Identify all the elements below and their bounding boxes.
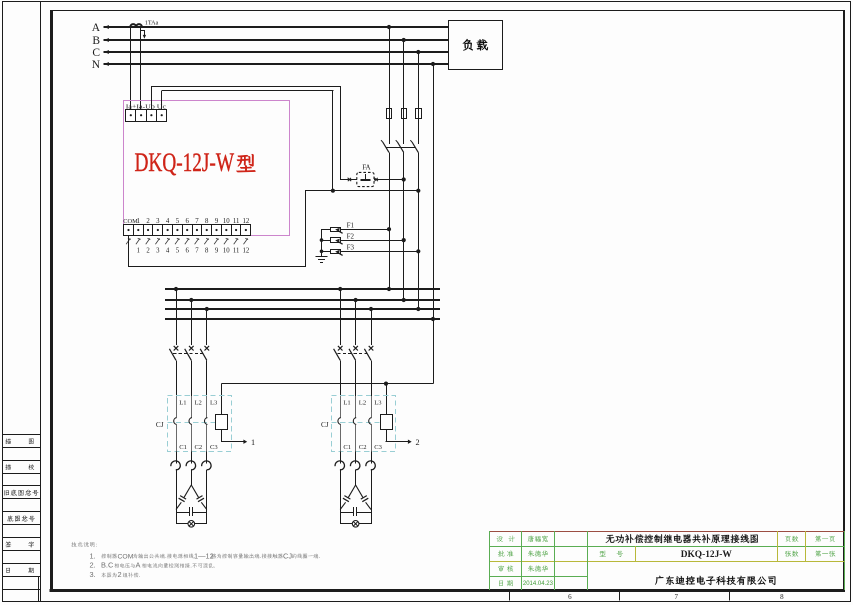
wire FU3 to breaker — [418, 119, 420, 145]
svg-text:8: 8 — [205, 218, 209, 225]
frame sidebar column — [40, 2, 42, 602]
svg-text:1: 1 — [137, 218, 140, 225]
title block label 日期 — [499, 580, 513, 586]
wire coil2 to controller output — [386, 429, 388, 441]
node branch2 pole2 bus tap — [354, 298, 358, 302]
svg-text:CJ: CJ — [156, 421, 164, 429]
notes header 技术说明 — [71, 542, 97, 547]
wire phase B below breaker — [403, 152, 405, 299]
svg-text:2: 2 — [416, 438, 420, 447]
node branch2 pole3 bus tap — [369, 307, 373, 311]
breaker QF2 dashed linkage — [337, 353, 369, 355]
breaker QF1 blades — [169, 349, 176, 361]
border inner frame right — [843, 10, 845, 592]
frame sidebar label 描图 — [5, 438, 11, 444]
node phase N tap — [431, 62, 435, 66]
title block label 页数 — [785, 536, 798, 542]
wire CT secondary Ia- — [140, 27, 142, 109]
svg-text:CJ: CJ — [321, 421, 329, 429]
bus bar L2 — [165, 299, 440, 301]
surge arrester F3 body — [331, 250, 341, 254]
frame sidebar label 签字 — [5, 541, 11, 547]
circuit breaker QF pole C blade — [412, 142, 418, 152]
wire phase C drop — [418, 52, 420, 109]
bus bar L1 — [165, 288, 440, 290]
svg-text:1TAa: 1TAa — [145, 20, 159, 27]
svg-text:3: 3 — [156, 218, 160, 225]
svg-text:1.: 1. — [90, 551, 96, 560]
fuse FU3 — [418, 109, 420, 119]
contactor CJ1 coil — [216, 415, 228, 430]
svg-text:9: 9 — [215, 218, 219, 225]
branch 2 poles to contactor — [340, 360, 342, 396]
node N through bus4 — [431, 317, 435, 321]
fuse FA connector mark left — [348, 178, 352, 182]
breaker QF2 blades — [334, 349, 341, 361]
wire phase line N — [104, 63, 449, 65]
branch 1 overload hooks — [176, 451, 178, 463]
svg-text:L2: L2 — [195, 400, 202, 407]
terminal block bottom (COM 1-12) — [124, 225, 251, 236]
svg-text:10: 10 — [223, 248, 230, 255]
svg-text:7: 7 — [674, 593, 678, 601]
svg-text:4: 4 — [166, 248, 170, 255]
wire phase N drop — [433, 64, 435, 319]
svg-text:DKQ-12J-W: DKQ-12J-W — [135, 148, 235, 177]
current transformer 1TAa primary bumps — [130, 24, 142, 27]
svg-text:C2: C2 — [359, 444, 367, 451]
title block label 张数 — [785, 551, 798, 557]
svg-text:6: 6 — [568, 593, 572, 601]
node phase A tap — [387, 25, 391, 29]
indicator lamp 2 — [352, 521, 359, 528]
svg-text:COM: COM — [118, 553, 134, 560]
svg-text:8: 8 — [205, 248, 209, 255]
node branch2 pole1 bus tap — [338, 287, 342, 291]
wire arrester F2 row — [322, 240, 404, 242]
capacitor bank 1 delta — [176, 485, 191, 510]
frame sidebar label 底图总号 — [7, 515, 35, 521]
wire coil1 to controller output — [221, 429, 223, 441]
ground symbol for arresters — [316, 256, 328, 258]
breaker QF1 crosses — [174, 346, 179, 351]
breaker QF2 crosses — [338, 346, 343, 351]
title block company name — [655, 576, 775, 585]
node coil2 feed tap — [384, 382, 388, 386]
frame sidebar label 描校 — [5, 464, 11, 470]
breaker QF1 dashed linkage — [173, 353, 205, 355]
wire phase line A — [104, 26, 449, 28]
node branch1 pole2 bus tap — [189, 298, 193, 302]
title block drawing title — [606, 534, 758, 543]
svg-text:F1: F1 — [347, 221, 355, 229]
title block horizontal dividers — [490, 546, 845, 548]
wire FU2 to breaker — [403, 119, 405, 145]
wire phase A drop — [389, 27, 391, 109]
svg-text:F3: F3 — [347, 244, 355, 252]
capacitor bank 2 delta — [340, 485, 355, 510]
circuit breaker QF linkage bar — [386, 147, 415, 149]
svg-text:DKQ-12J-W: DKQ-12J-W — [681, 550, 733, 560]
title block label 型号 — [599, 551, 623, 557]
svg-text:12: 12 — [242, 248, 249, 255]
branch 1 discharge loop — [176, 510, 178, 524]
svg-text:FA: FA — [362, 163, 370, 171]
wire COM loop to phase C — [128, 235, 130, 266]
svg-text:C: C — [92, 47, 100, 59]
svg-text:2014.04.23: 2014.04.23 — [523, 581, 554, 587]
terminal block top (Ia+ Ia- Ub Uc) — [126, 110, 167, 122]
wire FA to phase B — [340, 179, 357, 181]
title block value 第一张 — [815, 550, 835, 556]
fuse FA contact bar — [360, 179, 370, 181]
border inner frame left — [50, 10, 53, 592]
capacitor bank 1 bottom capacitor — [176, 512, 189, 514]
node COM net on phase C — [416, 189, 420, 193]
svg-text:F2: F2 — [347, 232, 355, 240]
fuse FU2 — [403, 109, 405, 119]
svg-text:10: 10 — [223, 218, 230, 225]
contactor CJ2 poles and contacts — [340, 396, 342, 418]
terminal wire-end marks below block — [126, 238, 131, 244]
node phase C tap — [416, 50, 420, 54]
node B to bus2 — [402, 298, 406, 302]
title block outline — [490, 531, 845, 533]
bus bar L3 — [165, 308, 440, 310]
title block label 批准 — [498, 551, 514, 557]
svg-text:C3: C3 — [210, 444, 218, 451]
node branch1 pole1 bus tap — [174, 287, 178, 291]
svg-text:1: 1 — [137, 248, 140, 255]
svg-text:L1: L1 — [179, 400, 186, 407]
svg-text:L2: L2 — [359, 400, 366, 407]
svg-text:12: 12 — [242, 218, 249, 225]
wire N to coil feed — [433, 319, 435, 384]
node Uc joins COM wire — [331, 189, 335, 193]
CT current direction arrow — [141, 30, 145, 32]
frame sidebar label 旧底图总号 — [4, 490, 38, 496]
node F3 on phase — [416, 249, 420, 253]
svg-text:N: N — [92, 59, 101, 71]
title block name 朱德华 — [528, 565, 548, 571]
indicator lamp 1 — [188, 521, 195, 528]
frame zone ticks — [509, 592, 511, 601]
contactor CJ2 dashed box — [332, 396, 396, 452]
node A to bus1 — [387, 287, 391, 291]
wire arrester F1 row — [322, 229, 390, 231]
bus bar N — [165, 318, 440, 320]
node F2 on phase — [402, 238, 406, 242]
svg-text:7: 7 — [195, 248, 199, 255]
surge arrester F1 body — [331, 228, 341, 232]
fuse FA dashed carrier box — [357, 172, 374, 186]
wire Uc terminal to COM/C net (inner L) — [161, 91, 163, 110]
svg-text:A: A — [92, 22, 101, 34]
svg-text:9: 9 — [215, 248, 219, 255]
svg-text:4: 4 — [166, 218, 170, 225]
title block value 第一页 — [815, 536, 835, 542]
node phase B tap — [402, 38, 406, 42]
fuse FU1 — [389, 109, 391, 119]
wire phase B drop — [403, 40, 405, 109]
svg-text:5: 5 — [176, 248, 180, 255]
svg-text:L1: L1 — [343, 400, 350, 407]
contactor CJ2 coil — [381, 415, 393, 430]
svg-text:B.C: B.C — [101, 561, 114, 570]
load box 负载 — [449, 21, 503, 70]
svg-text:1—12: 1—12 — [194, 551, 214, 560]
wire arrester common drop — [321, 229, 323, 256]
title block vertical dividers — [521, 531, 523, 590]
node C to bus3 — [416, 307, 420, 311]
wire arrester F3 row — [322, 251, 419, 253]
wire Ub terminal to FA (upper L) — [151, 86, 153, 109]
svg-text:CJ: CJ — [283, 551, 292, 560]
title block name 朱德华 — [528, 550, 548, 556]
svg-text:C1: C1 — [343, 444, 351, 451]
svg-text:2: 2 — [118, 570, 122, 579]
title block name 唐福宽 — [528, 536, 548, 543]
svg-text:L3: L3 — [374, 400, 382, 407]
wire FU1 to breaker — [389, 119, 391, 145]
frame sidebar label 日期 — [6, 568, 10, 573]
node F1 on phase — [387, 227, 391, 231]
node branch1 pole3 bus tap — [205, 307, 209, 311]
fuse FA connector mark right — [374, 178, 378, 182]
wire CT secondary Ia+ — [130, 27, 132, 109]
controller U1 DKQ-12J-W outline — [124, 101, 290, 236]
title block label 设计 — [496, 536, 514, 542]
svg-text:8: 8 — [780, 593, 784, 601]
svg-text:11: 11 — [233, 218, 240, 225]
svg-text:1: 1 — [251, 438, 255, 447]
branch 1 poles to contactor — [176, 360, 178, 396]
svg-text:C3: C3 — [374, 444, 382, 451]
svg-text:B: B — [92, 35, 100, 47]
svg-text:C1: C1 — [179, 444, 187, 451]
node F3 tap — [320, 250, 324, 254]
svg-text:5: 5 — [176, 218, 180, 225]
circuit breaker QF pole B blade — [397, 142, 403, 152]
contactor CJ1 dashed box — [168, 396, 232, 452]
svg-text:3: 3 — [156, 248, 160, 255]
svg-text:2.: 2. — [90, 561, 96, 570]
branch 2 discharge loop — [340, 510, 342, 524]
svg-text:6: 6 — [185, 218, 189, 225]
svg-text:A: A — [136, 561, 141, 570]
border inner frame top — [50, 10, 845, 12]
border inner frame bottom — [50, 589, 845, 592]
svg-text:6: 6 — [185, 248, 189, 255]
surge arrester F2 body — [331, 238, 341, 243]
branch 2 pole drops from bus — [340, 289, 342, 345]
node FA wire on phase B — [402, 177, 406, 181]
contactor CJ1 poles and contacts — [176, 396, 178, 418]
branch 1 pole drops from bus — [176, 289, 178, 345]
svg-text:L3: L3 — [210, 400, 218, 407]
svg-text:11: 11 — [233, 248, 240, 255]
svg-text:2: 2 — [146, 248, 150, 255]
title block label 审核 — [498, 565, 513, 571]
branch 2 overload hooks — [340, 451, 342, 463]
svg-text:C2: C2 — [195, 444, 203, 451]
node F2 tap — [320, 238, 324, 242]
wire phase line C — [104, 51, 449, 53]
wire phase C below breaker — [418, 152, 420, 309]
capacitor bank 2 bottom capacitor — [340, 512, 353, 514]
wire phase line B — [104, 39, 449, 41]
svg-text:7: 7 — [195, 218, 199, 225]
wire coil2 riser — [386, 384, 388, 416]
svg-text:2: 2 — [146, 218, 150, 225]
svg-text:3.: 3. — [90, 570, 96, 579]
circuit breaker QF pole A blade — [383, 142, 389, 152]
wire phase A below breaker — [389, 152, 391, 289]
